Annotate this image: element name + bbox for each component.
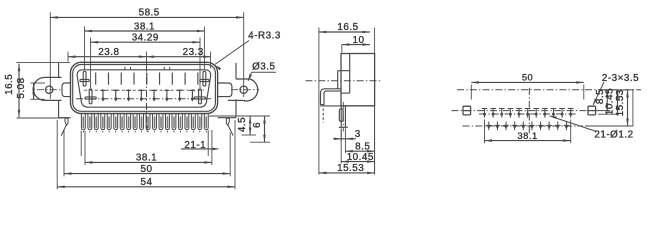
- svg-text:38.1: 38.1: [517, 130, 537, 141]
- svg-text:54: 54: [141, 177, 153, 188]
- svg-text:10: 10: [353, 35, 365, 46]
- svg-text:8.5: 8.5: [355, 141, 370, 152]
- svg-text:34.29: 34.29: [132, 32, 159, 43]
- svg-text:4-R3.3: 4-R3.3: [248, 31, 281, 42]
- svg-text:23.8: 23.8: [98, 47, 119, 58]
- svg-text:15.53: 15.53: [615, 89, 626, 116]
- svg-text:50: 50: [141, 164, 153, 175]
- svg-text:16.5: 16.5: [4, 74, 15, 95]
- svg-text:4.5: 4.5: [237, 117, 248, 132]
- svg-text:58.5: 58.5: [139, 7, 160, 18]
- svg-text:2-3×3.5: 2-3×3.5: [602, 73, 639, 84]
- svg-text:6: 6: [252, 122, 263, 128]
- svg-text:50: 50: [522, 71, 533, 82]
- svg-text:38.1: 38.1: [134, 21, 155, 32]
- svg-text:16.5: 16.5: [337, 22, 358, 33]
- svg-text:23.3: 23.3: [183, 47, 204, 58]
- svg-text:38.1: 38.1: [136, 153, 157, 164]
- svg-text:21-Ø1.2: 21-Ø1.2: [594, 130, 633, 141]
- svg-text:5.08: 5.08: [16, 77, 27, 98]
- svg-text:3: 3: [355, 129, 361, 140]
- svg-text:Ø3.5: Ø3.5: [252, 61, 275, 72]
- svg-text:15.53: 15.53: [337, 163, 364, 174]
- svg-text:10.45: 10.45: [347, 152, 374, 163]
